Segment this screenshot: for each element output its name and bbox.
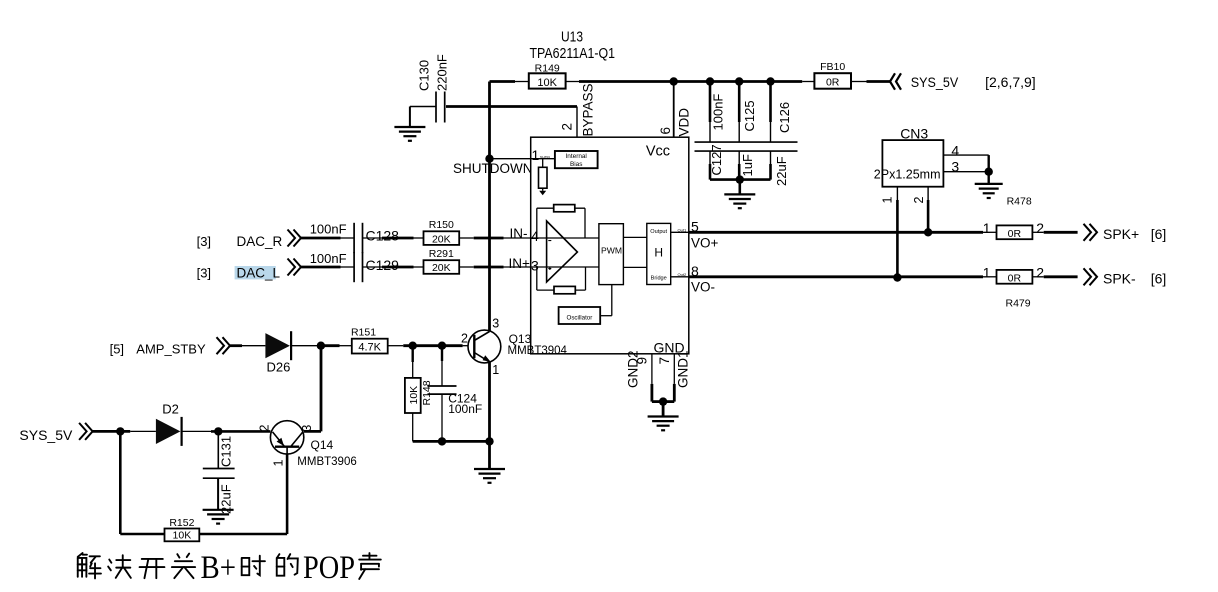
pin 3 IN+ labels: [509, 256, 540, 274]
node GND pins junction: [659, 397, 667, 405]
svg-text:Output: Output: [650, 229, 667, 235]
wires PWM to H bridge: [623, 237, 646, 267]
transistor Q14 MMBT3906: [258, 421, 314, 467]
internal pulldown resistor: [539, 159, 548, 196]
svg-text:[5]: [5]: [110, 341, 124, 356]
port SPK+: [1084, 224, 1167, 242]
IC U13 title labels: [530, 29, 616, 63]
wire R291 to IN+ pin: [459, 266, 531, 268]
svg-text:1: 1: [492, 363, 499, 377]
svg-text:20K: 20K: [432, 233, 451, 245]
op-amp triangle: [547, 221, 578, 282]
svg-text:[6]: [6]: [1151, 226, 1167, 242]
svg-text:0R: 0R: [1008, 272, 1022, 284]
wire FB10 to SYS_5V port: [851, 81, 890, 83]
wire Q14 base down: [286, 454, 289, 534]
svg-text:10K: 10K: [537, 77, 557, 89]
pin 9 GND2 wire: [652, 354, 663, 402]
block oscillator U13: [559, 307, 601, 324]
pin 5 VO+ labels: [691, 218, 719, 250]
label Q13: [508, 332, 568, 357]
CN3 pin 4 wire: [943, 143, 988, 159]
svg-text:SYS_5V: SYS_5V: [19, 427, 73, 443]
svg-text:B+: B+: [201, 550, 237, 586]
svg-text:3: 3: [492, 316, 499, 330]
svg-text:1: 1: [271, 460, 285, 467]
svg-text:2: 2: [1036, 265, 1044, 281]
wire C129 to R291: [363, 266, 424, 268]
svg-text:GND2: GND2: [626, 350, 641, 388]
capacitor C126 22uF: [771, 82, 793, 187]
svg-text:220nF: 220nF: [435, 54, 450, 91]
svg-text:Bridge: Bridge: [651, 276, 667, 282]
svg-text:FB10: FB10: [820, 61, 845, 73]
svg-text:1uF: 1uF: [740, 154, 755, 176]
wire R152 to Q14 base: [199, 533, 287, 536]
diode D26: [265, 331, 291, 374]
svg-text:MMBT3904: MMBT3904: [508, 345, 568, 357]
wire D2 to Q14 emitter: [182, 430, 270, 432]
capacitor plates C127 C125 C126: [695, 142, 798, 151]
op-amp IC U13 body: [531, 137, 689, 354]
svg-text:C127: C127: [709, 144, 724, 175]
node VDD rail junction at pin 6: [670, 77, 678, 85]
svg-text:1: 1: [532, 147, 540, 163]
wire VO+ net: [689, 231, 997, 234]
capacitor C129 100nF: [310, 251, 399, 282]
svg-text:SYS_5V: SYS_5V: [911, 74, 959, 90]
ground for Q13 emitter: [474, 441, 505, 482]
svg-text:R291: R291: [429, 248, 454, 260]
node CN3 pin 2 to VO+: [924, 228, 932, 236]
wire R151 to Q13 base: [388, 345, 469, 347]
label GND: [654, 340, 685, 356]
CN3 pin 3 wire: [943, 159, 988, 175]
node C124 bottom junction: [438, 437, 446, 445]
wire SHUTDOWN net vertical: [488, 82, 491, 331]
svg-text:2: 2: [560, 123, 575, 131]
svg-text:C125: C125: [742, 100, 757, 131]
wire C130 to BYPASS pin: [446, 105, 577, 108]
wire ground rail under R148 C124: [413, 440, 490, 443]
svg-text:4.7K: 4.7K: [358, 342, 381, 354]
node R148 top junction: [409, 342, 417, 350]
ground for C131: [203, 478, 234, 523]
svg-text:4: 4: [531, 228, 539, 244]
svg-text:POP: POP: [303, 550, 355, 586]
ground for U13 GND pins: [648, 402, 679, 431]
wire SYS_5V junction to R152: [120, 431, 164, 534]
svg-text:R151: R151: [351, 326, 376, 338]
wire AMP_STBY to D26: [230, 344, 265, 347]
svg-text:3: 3: [531, 258, 539, 274]
svg-text:10K: 10K: [408, 386, 420, 405]
ferrite bead FB10: [814, 61, 851, 89]
svg-text:7: 7: [657, 357, 672, 365]
wire R479 to SPK-: [1032, 276, 1077, 278]
svg-text:[3]: [3]: [197, 265, 211, 280]
resistor R148 10K: [405, 346, 433, 442]
wire SHUTDOWN to pin 1: [490, 158, 532, 160]
pin 7 GND1 wire: [663, 354, 674, 402]
svg-text:0R: 0R: [1008, 228, 1022, 240]
svg-text:D26: D26: [267, 360, 291, 375]
ground for C130: [394, 107, 425, 141]
svg-text:2: 2: [461, 331, 468, 345]
svg-text:22uF: 22uF: [774, 156, 789, 186]
resistor R150 20K: [424, 219, 460, 245]
svg-text:R152: R152: [169, 517, 194, 529]
resistor R149: [529, 62, 566, 89]
node SYS_5V junction: [116, 427, 124, 435]
capacitor C125 1uF: [739, 82, 757, 180]
wire R150 to IN- pin: [459, 237, 531, 239]
svg-text:R479: R479: [1006, 298, 1031, 310]
ground for decoupling caps: [724, 194, 755, 208]
svg-text:D2: D2: [162, 402, 179, 417]
transistor Q13 MMBT3904: [461, 316, 501, 377]
svg-text:DAC_R: DAC_R: [237, 234, 283, 249]
port DAC_L: [197, 259, 301, 281]
svg-text:R150: R150: [429, 219, 454, 231]
svg-text:100nF: 100nF: [448, 402, 482, 416]
svg-text:100nF: 100nF: [310, 222, 347, 237]
label Q14: [297, 438, 356, 468]
svg-text:100nF: 100nF: [310, 251, 347, 266]
svg-text:[3]: [3]: [197, 234, 211, 249]
resistor R152 10K: [165, 517, 200, 542]
svg-text:Internal: Internal: [566, 153, 587, 160]
resistor R291 20K: [424, 248, 460, 274]
svg-text:[6]: [6]: [1151, 271, 1167, 287]
svg-text:AMP_STBY: AMP_STBY: [136, 341, 206, 356]
wire cap commons to ground: [710, 175, 771, 194]
svg-text:R149: R149: [535, 62, 560, 74]
capacitor C128 100nF: [310, 222, 399, 254]
svg-text:1: 1: [983, 220, 991, 236]
svg-text:SPK+: SPK+: [1103, 226, 1139, 242]
svg-text:SHUTDOWN: SHUTDOWN: [453, 161, 533, 176]
feedback resistor bottom: [537, 267, 586, 294]
pin label 6 VDD: [658, 108, 692, 137]
svg-text:Out2: Out2: [678, 272, 687, 277]
svg-text:0R: 0R: [826, 77, 840, 89]
port DAC_R: [197, 230, 301, 250]
svg-text:SPK-: SPK-: [1103, 271, 1136, 287]
svg-text:Bias: Bias: [570, 161, 582, 168]
node rail junction C125: [735, 77, 743, 85]
svg-text:C131: C131: [219, 436, 234, 467]
port SYS_5V (bottom left): [19, 423, 92, 443]
capacitor C130 220nF: [410, 54, 450, 122]
internal bias block U13: [531, 151, 598, 168]
node CN3 pin 1 to VO-: [893, 273, 901, 281]
wire VO- net: [689, 275, 997, 278]
wires H bridge outputs: [671, 227, 689, 276]
wire SYS_5V to D2: [93, 430, 156, 433]
wire IN+ inside U13: [531, 266, 599, 268]
svg-text:MMBT3906: MMBT3906: [297, 456, 356, 468]
wire VDD rail: [566, 81, 815, 83]
block PWM U13: [599, 224, 624, 285]
net label SHUTDOWN: [453, 161, 533, 176]
CN3 pin 2 wire: [912, 187, 928, 233]
svg-text:BYPASS: BYPASS: [581, 83, 596, 136]
node C124 top junction: [438, 342, 446, 350]
resistor R478 0R: [983, 196, 1045, 240]
wire junction to R151: [321, 344, 352, 347]
wire Q13 emitter to ground rail: [488, 362, 491, 442]
svg-text:DAC_L: DAC_L: [237, 265, 281, 280]
wire DAC_R to C128: [301, 237, 354, 240]
svg-text:C128: C128: [366, 227, 400, 243]
svg-text:C129: C129: [366, 257, 400, 273]
annotation text (Chinese) POP noise note: [78, 550, 381, 586]
svg-text:U13: U13: [561, 29, 583, 46]
svg-text:R148: R148: [421, 380, 433, 405]
svg-text:6: 6: [658, 127, 673, 135]
capacitor C131 22uF: [203, 431, 235, 514]
label Vcc: [646, 144, 670, 160]
svg-text:Vcc: Vcc: [646, 144, 670, 160]
svg-text:IN-: IN-: [510, 226, 528, 241]
svg-text:C126: C126: [777, 102, 792, 133]
capacitor C124 100nF: [428, 346, 483, 442]
wire R478 to SPK+: [1032, 231, 1077, 233]
wire C128 to R150: [363, 237, 424, 239]
svg-text:2: 2: [258, 425, 272, 432]
svg-text:4: 4: [951, 143, 959, 159]
resistor R479 0R: [983, 265, 1045, 310]
svg-text:2: 2: [912, 197, 926, 204]
resistor R151 4.7K: [351, 326, 388, 353]
wire BYPASS pin 2 vertical: [576, 107, 578, 152]
svg-text:VDD: VDD: [677, 108, 692, 137]
svg-text:[2,6,7,9]: [2,6,7,9]: [985, 74, 1036, 90]
wire SHUTDOWN pullup segment (rail corner to R149): [490, 80, 530, 83]
pin 8 VO- labels: [691, 263, 715, 295]
pin 1 SHUTDOWN label: [532, 147, 551, 163]
wire PWM to oscillator: [600, 285, 612, 316]
svg-text:R478: R478: [1007, 196, 1032, 208]
pin 4 IN- labels: [510, 226, 540, 244]
svg-text:Q14: Q14: [311, 438, 334, 452]
svg-text:Oscillator: Oscillator: [567, 315, 593, 322]
node SHUTDOWN junction: [485, 155, 493, 163]
svg-text:20K: 20K: [432, 262, 451, 274]
svg-text:VO-: VO-: [691, 280, 715, 295]
pin labels GND2 9 7 GND1: [626, 350, 691, 388]
CN3 pin 1 wire: [881, 187, 898, 278]
pin label 2 BYPASS: [560, 83, 596, 136]
svg-text:2Px1.25mm: 2Px1.25mm: [874, 168, 941, 182]
svg-text:2: 2: [1036, 220, 1044, 236]
svg-text:H: H: [654, 246, 663, 260]
port AMP_STBY: [110, 337, 230, 356]
svg-text:GND1: GND1: [676, 350, 691, 388]
highlight DAC_L: [235, 266, 276, 279]
svg-text:CN3: CN3: [900, 125, 928, 141]
wire CN3 pins 3 4 to ground: [985, 155, 993, 184]
feedback resistor top: [537, 205, 585, 238]
svg-text:9: 9: [635, 357, 650, 365]
svg-text:10K: 10K: [173, 530, 192, 542]
wire DAC_L to C129: [301, 266, 354, 269]
block H bridge U13: [647, 223, 671, 284]
capacitor C127 100nF: [709, 82, 726, 180]
node rail junction C126: [766, 77, 774, 85]
node rail junction C127: [706, 77, 714, 85]
node Q13 emitter junction: [485, 437, 493, 445]
svg-text:1: 1: [983, 265, 991, 281]
port SYS_5V (top right): [890, 73, 1036, 90]
port SPK-: [1084, 268, 1167, 286]
svg-text:C130: C130: [417, 60, 432, 91]
svg-text:100nF: 100nF: [711, 94, 726, 131]
svg-text:VO+: VO+: [691, 236, 719, 251]
wire D26 to junction: [291, 345, 321, 347]
node AMP_STBY junction: [317, 342, 325, 350]
ground for CN3: [975, 184, 1003, 198]
wire VDD pin 6 vertical: [673, 82, 675, 138]
wire Q14 collector to AMP_STBY junction: [304, 346, 321, 432]
connector CN3: [874, 125, 944, 186]
wire IN- inside U13: [531, 237, 599, 239]
svg-text:Out1: Out1: [678, 227, 687, 232]
node C131 junction: [214, 427, 222, 435]
diode D2: [156, 402, 182, 446]
svg-text:TPA6211A1-Q1: TPA6211A1-Q1: [530, 45, 616, 62]
svg-text:1: 1: [881, 197, 895, 204]
svg-text:3: 3: [951, 159, 959, 175]
svg-text:PWM: PWM: [601, 245, 622, 255]
svg-text:IN+: IN+: [509, 256, 531, 271]
